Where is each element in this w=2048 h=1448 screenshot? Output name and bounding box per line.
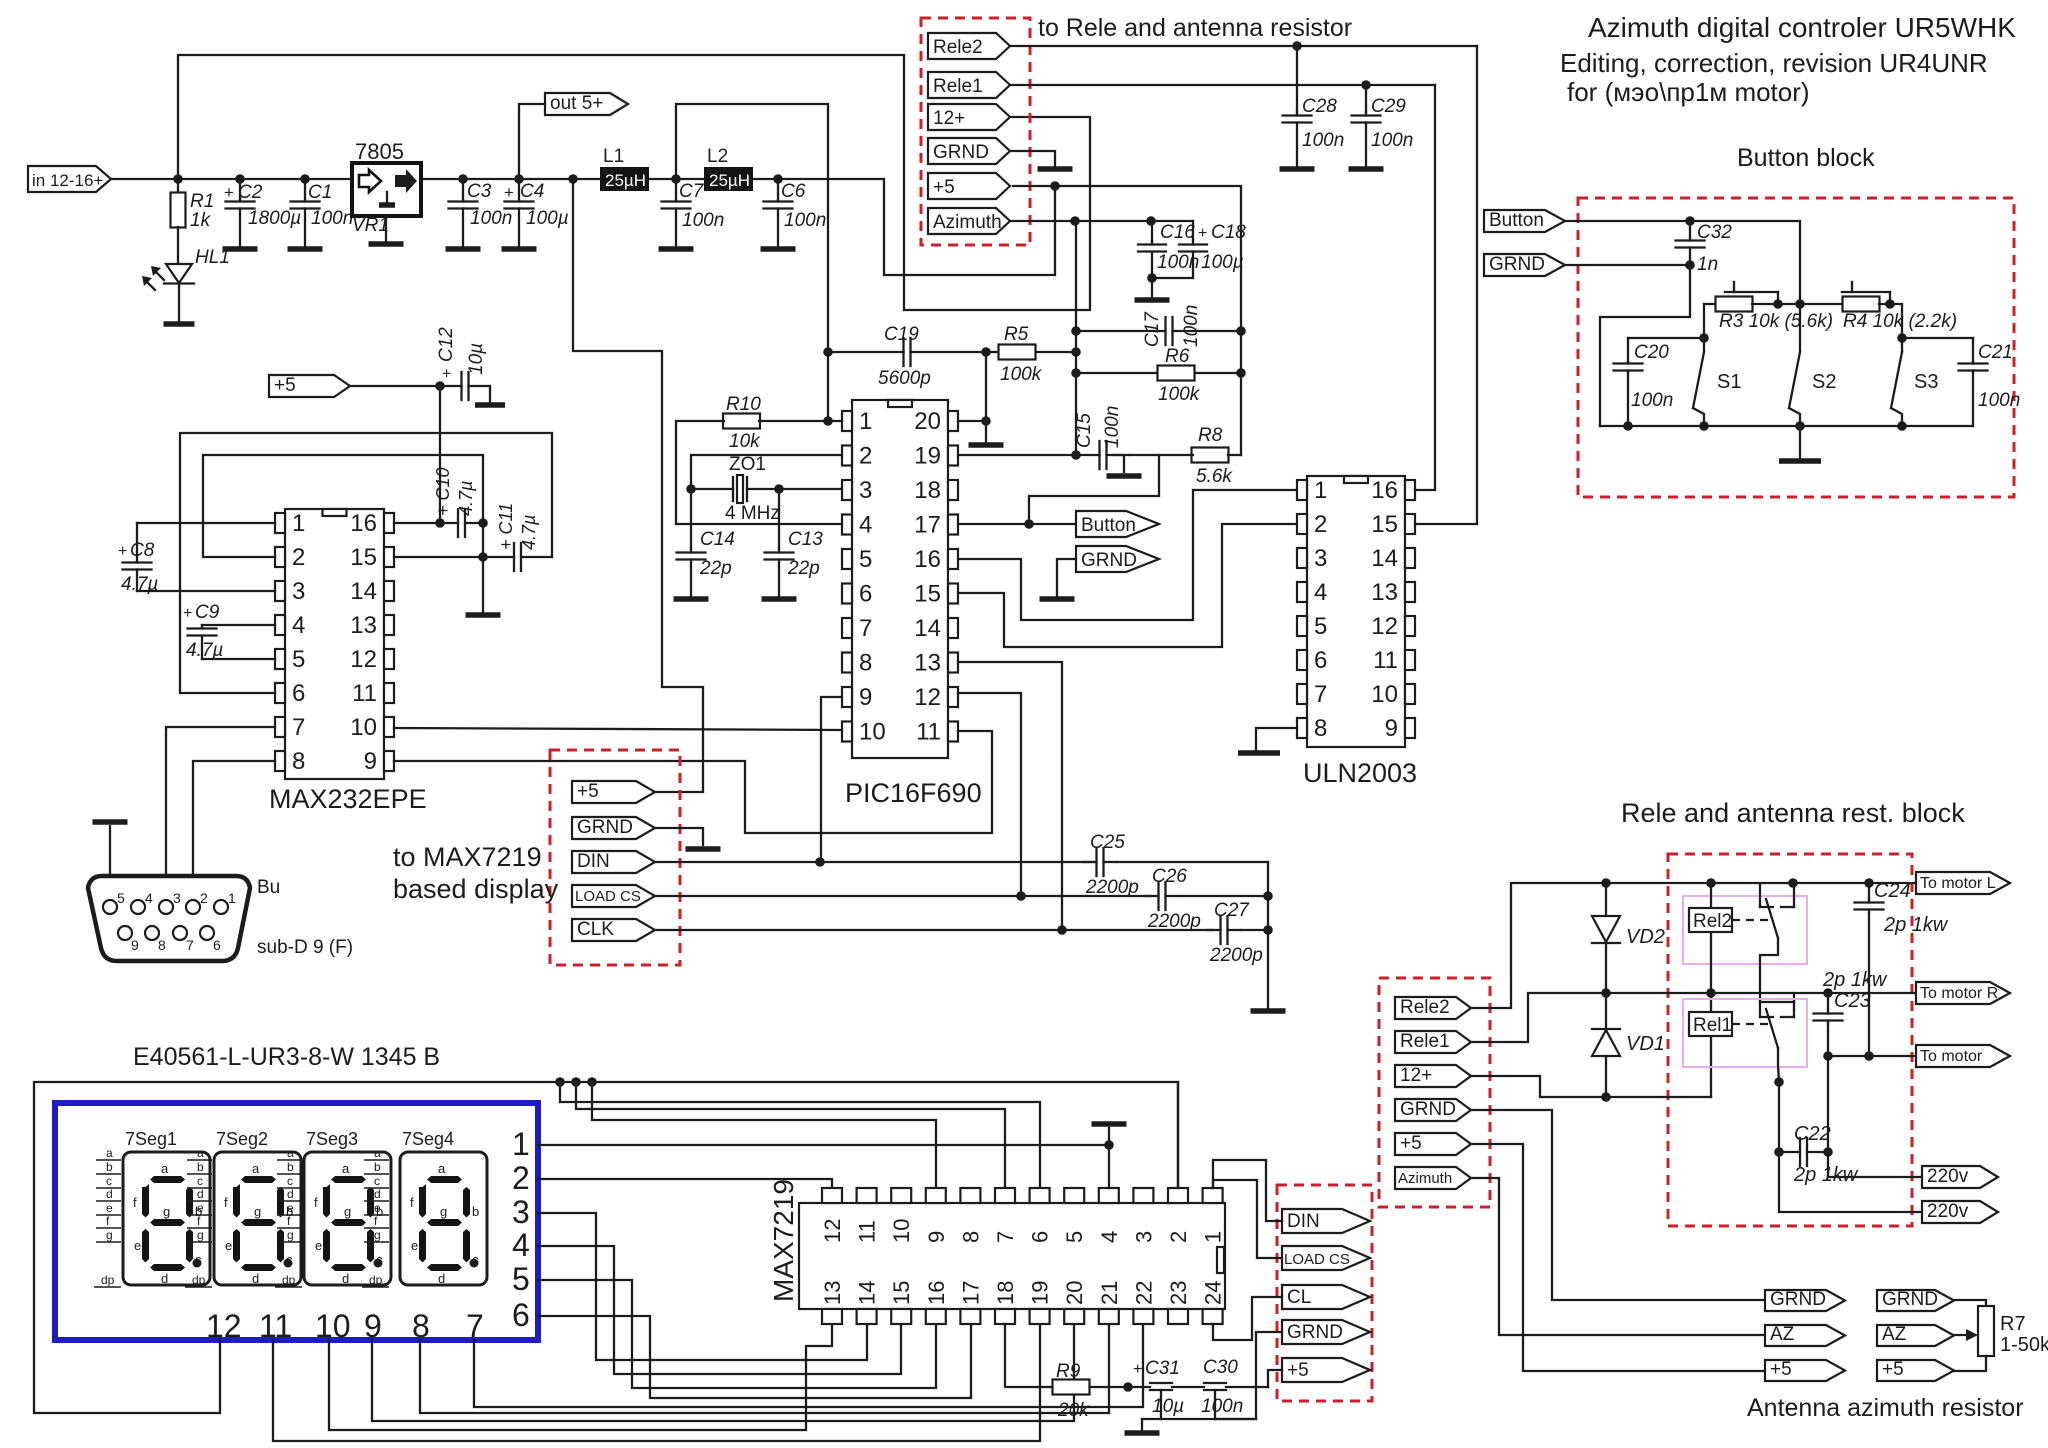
dashed box Button block	[1578, 198, 2014, 497]
svg-text:b: b	[374, 1160, 381, 1174]
svg-text:GRND: GRND	[1081, 550, 1137, 571]
svg-text:15: 15	[914, 581, 941, 608]
svg-text:3: 3	[292, 578, 305, 605]
svg-text:R8: R8	[1198, 425, 1223, 446]
svg-text:22: 22	[1131, 1281, 1156, 1305]
connector To motor	[1916, 1045, 2010, 1067]
capacitor C24 2p 1kw	[1868, 883, 1870, 899]
wire MAX pin4 ground	[1108, 1145, 1110, 1188]
resistor R8 5.6k	[1130, 454, 1159, 456]
svg-text:8: 8	[1314, 715, 1327, 742]
svg-text:a: a	[197, 1146, 204, 1160]
svg-text:10µ: 10µ	[1152, 1396, 1184, 1417]
driver U3 MAX232EPE	[285, 509, 384, 779]
potentiometer R3 10k (5.6k)	[1704, 303, 1716, 305]
dashed interface box to Rele and antenna resistor	[921, 18, 1030, 245]
capacitor C6 100n	[777, 179, 779, 200]
svg-text:d: d	[438, 1271, 445, 1286]
wire +5 feed long	[1471, 1144, 1765, 1371]
svg-text:3: 3	[859, 477, 872, 504]
svg-text:g: g	[344, 1204, 351, 1219]
wire	[752, 178, 884, 180]
svg-text:8: 8	[958, 1231, 983, 1243]
svg-text:7: 7	[993, 1231, 1018, 1243]
svg-text:Azimuth: Azimuth	[1398, 1170, 1452, 1187]
ground	[1135, 297, 1170, 303]
svg-text:+: +	[439, 369, 456, 378]
connector 220v lower	[1922, 1201, 1998, 1223]
svg-text:b: b	[197, 1160, 204, 1174]
wire	[1799, 426, 1801, 458]
svg-text:R7: R7	[2000, 1313, 2026, 1335]
svg-text:C8: C8	[130, 540, 155, 561]
wire Button line	[1565, 221, 1800, 304]
svg-text:10µ: 10µ	[466, 343, 487, 375]
wire	[109, 826, 111, 876]
svg-text:5: 5	[512, 1261, 530, 1297]
LED HL1	[177, 227, 179, 264]
diode VD2	[1605, 883, 1607, 916]
svg-text:To motor L: To motor L	[1920, 875, 1996, 892]
svg-text:Rele and antenna rest. block: Rele and antenna rest. block	[1621, 798, 1965, 828]
wire C21 line	[1902, 337, 1973, 339]
svg-text:7: 7	[1314, 681, 1327, 708]
relay Rel2 contact	[1759, 884, 1761, 907]
svg-text:12: 12	[1371, 613, 1398, 640]
wire digit 7 to MAX pin 22	[474, 1324, 1143, 1407]
wire C11 loop to pin 6	[180, 433, 552, 693]
svg-text:C21: C21	[1978, 342, 2013, 363]
svg-text:g: g	[374, 1228, 381, 1242]
relay Rel1 coil	[1689, 1012, 1732, 1036]
svg-text:17: 17	[914, 512, 941, 539]
svg-text:C18: C18	[1211, 222, 1246, 243]
svg-text:g: g	[440, 1204, 447, 1219]
connector CL (MAX7219)	[1282, 1285, 1370, 1309]
svg-text:Azimuth digital controler UR5W: Azimuth digital controler UR5WHK	[1588, 12, 2016, 43]
svg-text:16: 16	[1371, 477, 1398, 504]
connector +5 (display)	[572, 781, 655, 803]
wire coil bottom line	[1606, 1096, 1711, 1098]
svg-text:+ C10: + C10	[433, 467, 453, 516]
dashed box relay contacts	[1668, 854, 1912, 1226]
svg-text:for (мэо\пр1м motor): for (мэо\пр1м motor)	[1567, 77, 1810, 107]
svg-text:S1: S1	[1717, 371, 1741, 393]
wire display row6 to MAX pin 17	[538, 1316, 971, 1398]
wire GRND stub	[655, 828, 703, 845]
svg-text:+: +	[183, 605, 192, 622]
svg-text:4.7µ: 4.7µ	[456, 481, 476, 516]
svg-text:24: 24	[1201, 1281, 1226, 1305]
driver U4 ULN2003	[1307, 476, 1405, 747]
wire R10 to pin 4	[676, 421, 842, 524]
diode VD1	[1605, 993, 1607, 1028]
ground	[446, 246, 481, 252]
svg-text:AZ: AZ	[1882, 1324, 1907, 1345]
svg-text:R5: R5	[1004, 324, 1029, 345]
potentiometer R7 1-50k	[1954, 1300, 1986, 1306]
svg-text:C22: C22	[1794, 1123, 1831, 1145]
svg-text:Editing, correction, revision: Editing, correction, revision UR4UNR	[1560, 48, 1988, 78]
svg-text:16: 16	[924, 1281, 949, 1305]
svg-text:GRND: GRND	[1287, 1322, 1343, 1343]
svg-text:dp: dp	[192, 1273, 206, 1287]
svg-text:sub-D 9 (F): sub-D 9 (F)	[257, 937, 353, 958]
svg-text:c: c	[195, 1252, 202, 1267]
capacitor C28 100n	[1292, 41, 1302, 51]
svg-text:13: 13	[820, 1281, 845, 1305]
svg-text:a: a	[287, 1146, 294, 1160]
svg-text:Rele1: Rele1	[1400, 1031, 1450, 1052]
svg-text:f: f	[314, 1195, 318, 1210]
svg-text:20k: 20k	[1057, 1400, 1090, 1421]
wire	[350, 385, 440, 387]
svg-text:c: c	[376, 1252, 383, 1267]
wire	[421, 178, 600, 180]
wire	[385, 216, 387, 241]
svg-text:11: 11	[916, 719, 941, 746]
svg-text:14: 14	[855, 1281, 880, 1305]
svg-text:to Rele and antenna resistor: to Rele and antenna resistor	[1038, 14, 1352, 42]
svg-text:GRND: GRND	[1770, 1289, 1826, 1310]
wire pin 12 to LOAD CS line	[958, 693, 1021, 896]
capacitor C11 4.7u	[483, 556, 514, 558]
svg-text:18: 18	[993, 1281, 1018, 1305]
svg-text:100µ: 100µ	[1201, 252, 1244, 273]
svg-text:16: 16	[350, 510, 377, 537]
wire	[519, 104, 545, 179]
svg-text:VD2: VD2	[1626, 926, 1665, 948]
svg-text:9: 9	[924, 1231, 949, 1243]
svg-text:L2: L2	[707, 146, 728, 167]
wire	[1879, 304, 1902, 338]
svg-text:C16: C16	[1160, 222, 1195, 243]
wire pin2 to crystal	[691, 455, 842, 489]
connector Azimuth	[928, 208, 1010, 234]
svg-text:Azimuth: Azimuth	[933, 212, 1002, 233]
svg-text:R4 10k (2.2k): R4 10k (2.2k)	[1843, 311, 1957, 332]
capacitor C25 2200p	[1083, 861, 1097, 863]
svg-text:11: 11	[1373, 647, 1398, 674]
svg-text:out 5+: out 5+	[550, 93, 603, 114]
dashed box relay connectors	[1379, 978, 1490, 1207]
svg-text:b: b	[287, 1160, 294, 1174]
wire motor R line	[1606, 992, 1916, 994]
svg-text:C29: C29	[1371, 96, 1406, 117]
svg-text:a: a	[161, 1161, 169, 1176]
wire Rele1 line	[1010, 84, 1435, 86]
wire	[489, 386, 491, 402]
wire Azimuth feed long	[1471, 1178, 1765, 1335]
svg-text:Rele1: Rele1	[933, 76, 983, 97]
svg-text:4: 4	[292, 612, 305, 639]
capacitor C16 100n	[1151, 221, 1153, 240]
wire +5 to R8 rail	[1055, 186, 1241, 455]
relay Rel1 outline	[1683, 999, 1807, 1067]
capacitor C3 100n	[462, 179, 464, 200]
svg-text:1n: 1n	[1697, 254, 1718, 275]
wire digit 12 drop	[219, 1340, 221, 1413]
ground	[969, 442, 1004, 448]
connector 12+ (relay)	[1395, 1065, 1471, 1087]
svg-text:C4: C4	[520, 181, 544, 202]
svg-text:e: e	[225, 1238, 232, 1253]
ground	[1779, 458, 1821, 464]
svg-text:6: 6	[213, 937, 221, 953]
capacitor C30 100n	[1204, 1382, 1226, 1384]
wire	[1151, 278, 1153, 297]
connector GRND (pot)	[1877, 1290, 1954, 1311]
wire Rele2 to ULN pin 15	[1415, 46, 1477, 524]
wire pin 10 to PIC pin 10	[394, 728, 842, 730]
svg-text:Rel1: Rel1	[1693, 1015, 1732, 1036]
wire pin 7 to sub-D pin 3	[166, 727, 275, 901]
svg-text:VD1: VD1	[1626, 1033, 1665, 1055]
svg-text:7Seg1: 7Seg1	[125, 1129, 177, 1149]
connector GRND (azimuth pot feed)	[1765, 1290, 1845, 1311]
ground	[502, 246, 537, 252]
svg-text:C19: C19	[884, 324, 919, 345]
svg-text:MAX232EPE: MAX232EPE	[269, 784, 427, 814]
svg-text:7Seg3: 7Seg3	[306, 1129, 358, 1149]
inductor L2 25uH	[704, 167, 753, 191]
wire display row1 to MAX ground node	[538, 1144, 1109, 1146]
wire to 220v upper	[1828, 1152, 1922, 1177]
svg-text:19: 19	[1028, 1281, 1053, 1305]
svg-text:e: e	[197, 1201, 204, 1215]
wire CLK line	[655, 929, 1213, 931]
wire MAX pin 2 stub	[1177, 1082, 1179, 1188]
connector GRND (relay)	[1395, 1099, 1471, 1121]
svg-text:R10: R10	[726, 394, 761, 415]
wire C20 line	[1628, 337, 1704, 339]
svg-text:AZ: AZ	[1770, 1324, 1795, 1345]
capacitor C32 1n	[1689, 221, 1691, 240]
svg-text:GRND: GRND	[577, 817, 633, 838]
svg-text:a: a	[438, 1161, 446, 1176]
svg-text:dp: dp	[282, 1273, 296, 1287]
svg-text:14: 14	[1371, 545, 1398, 572]
ground	[1107, 473, 1142, 479]
wire Rele1 to ULN pin 16	[1415, 85, 1435, 490]
svg-text:g: g	[106, 1228, 113, 1242]
svg-text:+: +	[118, 543, 127, 560]
switch S2	[1799, 304, 1801, 352]
svg-text:4.7µ: 4.7µ	[519, 515, 539, 550]
svg-text:6: 6	[512, 1297, 530, 1333]
wire pin15 line	[394, 556, 483, 558]
svg-text:1k: 1k	[190, 210, 212, 231]
svg-text:C20: C20	[1634, 342, 1669, 363]
wire display row4 to MAX pin 15	[538, 1246, 901, 1374]
svg-text:6: 6	[859, 581, 872, 608]
svg-text:7Seg4: 7Seg4	[402, 1129, 454, 1149]
svg-text:1: 1	[228, 890, 236, 906]
svg-text:17: 17	[958, 1281, 983, 1305]
node junction dots on input rail	[173, 174, 183, 184]
wire branch to MAX pin 6	[560, 1082, 1040, 1188]
wire pin 8 to sub-D pin 2	[193, 761, 275, 901]
wire ULN pin 8 ground	[1256, 728, 1297, 750]
ground	[288, 246, 323, 252]
wire 12+ feed	[1471, 1076, 1606, 1097]
svg-text:15: 15	[1371, 511, 1398, 538]
svg-text:2200p: 2200p	[1209, 945, 1263, 966]
svg-text:LOAD CS: LOAD CS	[1284, 1251, 1350, 1268]
svg-text:3: 3	[512, 1194, 530, 1230]
wire	[1113, 455, 1124, 472]
relay Rel2 coil	[1710, 883, 1712, 993]
svg-text:GRND: GRND	[1489, 254, 1545, 275]
svg-text:f: f	[410, 1195, 414, 1210]
wire R5 node to pin 20 and ground	[985, 352, 987, 421]
svg-text:220v: 220v	[1927, 1166, 1969, 1187]
svg-text:PIC16F690: PIC16F690	[845, 778, 982, 808]
svg-text:3: 3	[1314, 545, 1327, 572]
wire DIN line	[655, 861, 1094, 863]
connector LOAD CS (display)	[572, 885, 655, 907]
svg-text:DIN: DIN	[577, 851, 610, 872]
connector LOAD CS (MAX7219)	[1282, 1246, 1370, 1270]
wire +5 rail to main rail	[884, 179, 1055, 275]
display driver U5 MAX7219	[799, 1203, 1225, 1309]
svg-text:d: d	[106, 1187, 113, 1201]
svg-text:b: b	[106, 1160, 113, 1174]
wire +5 feed down to display connector	[573, 179, 703, 792]
capacitor C26 2200p	[1145, 895, 1159, 897]
connector Rele1 (relay)	[1395, 1031, 1471, 1053]
wire motor line 3	[1828, 1055, 1916, 1057]
wire C10 to pin15 node	[482, 523, 484, 557]
svg-text:dp: dp	[369, 1273, 383, 1287]
svg-text:220v: 220v	[1927, 1201, 1969, 1222]
svg-text:a: a	[252, 1161, 260, 1176]
capacitor C10 4.7u	[440, 522, 458, 524]
resistor R9 20k	[1005, 1324, 1053, 1387]
wire pin2 loop to C10	[203, 455, 483, 557]
connector Bu sub-D 9 (F)	[88, 876, 250, 961]
display module blue frame	[55, 1103, 538, 1340]
svg-text:1: 1	[512, 1126, 530, 1162]
wire bypass over L2	[676, 104, 828, 421]
connector +5	[928, 173, 1010, 199]
connector To motor R	[1916, 982, 2010, 1004]
svg-text:12: 12	[820, 1219, 845, 1243]
svg-text:e: e	[106, 1201, 113, 1215]
connector +5 (relay)	[1395, 1133, 1471, 1155]
svg-text:ZO1: ZO1	[729, 454, 766, 475]
svg-text:LOAD CS: LOAD CS	[575, 888, 641, 905]
svg-text:16: 16	[914, 546, 941, 573]
svg-text:2: 2	[859, 443, 872, 470]
wire to 220v lower	[1779, 1152, 1922, 1212]
svg-text:To motor R: To motor R	[1920, 985, 1998, 1002]
svg-text:8: 8	[158, 937, 166, 953]
ground	[466, 612, 501, 618]
capacitor C13 22p	[778, 489, 780, 548]
svg-text:d: d	[374, 1187, 381, 1201]
svg-text:C2: C2	[238, 182, 263, 203]
wire Rele2 line	[1010, 45, 1477, 47]
voltage regulator VR1 7805	[352, 163, 421, 216]
svg-text:g: g	[254, 1204, 261, 1219]
connector GRND (MAX7219)	[1282, 1320, 1370, 1344]
ground	[369, 241, 404, 247]
capacitor C18 100u	[1192, 221, 1194, 240]
svg-text:4: 4	[1314, 579, 1327, 606]
ground	[475, 402, 505, 408]
svg-text:C24: C24	[1874, 880, 1911, 902]
svg-text:C28: C28	[1302, 96, 1337, 117]
connector +5 (MAX232)	[269, 375, 350, 397]
svg-text:e: e	[374, 1201, 381, 1215]
ground	[223, 246, 258, 252]
capacitor C19 5600p	[828, 351, 904, 353]
ground	[1349, 166, 1384, 172]
wire	[649, 178, 704, 180]
wire branch to MAX pin 7	[576, 1082, 1005, 1188]
svg-text:6: 6	[1314, 647, 1327, 674]
dashed interface box to MAX7219 display	[550, 750, 680, 965]
svg-text:ULN2003: ULN2003	[1303, 758, 1417, 788]
svg-text:C30: C30	[1203, 1357, 1238, 1378]
connector +5 (azimuth pot feed)	[1765, 1360, 1845, 1381]
connector 220v upper	[1922, 1166, 1998, 1188]
svg-text:C17: C17	[1142, 311, 1163, 347]
wire LOAD CS connector to pin 24	[1213, 1180, 1282, 1258]
svg-text:100k: 100k	[1000, 364, 1043, 385]
svg-text:c: c	[287, 1174, 293, 1188]
svg-text:Rel2: Rel2	[1693, 911, 1732, 932]
svg-text:Button: Button	[1489, 210, 1544, 231]
svg-text:7: 7	[186, 937, 194, 953]
svg-text:+5: +5	[577, 781, 599, 802]
ground	[1125, 1430, 1160, 1436]
svg-text:C3: C3	[467, 181, 492, 202]
svg-text:8: 8	[292, 748, 305, 775]
svg-text:4: 4	[1097, 1231, 1122, 1243]
connector Button (block)	[1484, 210, 1565, 232]
ground	[762, 596, 797, 602]
ground	[761, 246, 796, 252]
capacitor C4 100u	[518, 179, 520, 200]
svg-text:9: 9	[364, 1308, 382, 1344]
svg-text:9: 9	[859, 684, 872, 711]
svg-text:GRND: GRND	[1882, 1289, 1938, 1310]
svg-text:Button block: Button block	[1737, 144, 1875, 172]
capacitor C31 10u	[1150, 1382, 1172, 1384]
svg-text:c: c	[286, 1252, 293, 1267]
connector DIN (MAX7219)	[1282, 1209, 1370, 1233]
svg-text:e: e	[411, 1238, 418, 1253]
svg-text:CL: CL	[1287, 1287, 1311, 1308]
svg-text:2: 2	[292, 544, 305, 571]
svg-text:+5: +5	[1882, 1359, 1904, 1380]
svg-text:11: 11	[259, 1308, 292, 1344]
connector GRND (block)	[1484, 254, 1565, 276]
wire LOAD CS line	[655, 895, 1151, 897]
ground	[686, 846, 721, 852]
svg-text:1800µ: 1800µ	[248, 208, 301, 229]
svg-text:+5: +5	[1400, 1133, 1422, 1154]
svg-text:7: 7	[466, 1308, 484, 1344]
ground	[1238, 750, 1280, 756]
svg-text:2p 1kw: 2p 1kw	[1883, 914, 1949, 936]
svg-text:5: 5	[292, 646, 305, 673]
wire digit 9 to MAX pin 20	[372, 1324, 1074, 1421]
svg-text:100n: 100n	[311, 208, 353, 229]
connector in 12-16+	[28, 166, 111, 192]
